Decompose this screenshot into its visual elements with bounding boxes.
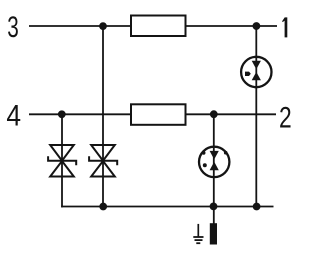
PE terminal bar [210, 223, 217, 244]
svg-text:2: 2 [279, 100, 292, 134]
wire: vertical through D2 (from top wire to bottom bus) [102, 26, 104, 207]
junction dot: bottom bus / D2 branch [99, 203, 107, 211]
wire: middle horizontal (terminal 4 to terminal 2) [29, 113, 276, 115]
suppressor diode D1 zener bar [48, 156, 76, 165]
F2 gas-filled indicator dot [203, 163, 207, 167]
suppressor diode D1 bottom triangle [50, 161, 74, 177]
F2 fail-safe mark left (10 o'clock on circle) [202, 151, 206, 155]
wire: left vertical through D1 [61, 114, 63, 207]
junction dot: top wire / D2 branch [99, 22, 107, 30]
terminal label 3 [7, 11, 19, 44]
F1 gas-filled indicator dot [245, 72, 251, 76]
junction dot: bottom bus / F2 branch [210, 203, 218, 211]
resistor R1 [131, 16, 186, 37]
wire: bottom horizontal bus [61, 206, 273, 208]
gas discharge tube F2 (middle) circle [199, 147, 229, 177]
F2 spark-gap arrow (upper, pointing down) [210, 151, 219, 160]
junction dot: top wire / F1 branch [253, 22, 261, 30]
ground symbol stem [197, 224, 199, 237]
F2 fail-safe mark right (2 o'clock on circle) [224, 151, 228, 155]
junction dot: middle wire / F2 branch [210, 110, 218, 118]
F1 spark-gap arrow (lower, pointing up) [252, 72, 261, 80]
wire: top horizontal (terminal 3 to terminal 1) [29, 25, 277, 27]
F1 spark-gap arrow (upper, pointing down) [252, 61, 261, 70]
suppressor diode D2 bottom triangle [91, 161, 115, 177]
resistor R2 [131, 104, 186, 125]
svg-text:4: 4 [6, 98, 21, 132]
wire: vertical through F2 down to PE stub [213, 114, 215, 223]
junction dot: middle wire / D1 branch [58, 110, 66, 118]
terminal label 2 [279, 100, 292, 134]
svg-text:3: 3 [7, 11, 19, 44]
ground symbol bar 1 [193, 236, 203, 238]
F2 spark-gap arrow (lower, pointing up) [210, 162, 219, 170]
suppressor diode D2 (bidirectional) top triangle [91, 145, 115, 161]
wire: right vertical through F1 [255, 26, 257, 207]
ground symbol bar 3 [196, 242, 200, 244]
terminal label 4 [6, 98, 21, 132]
suppressor diode D2 zener bar [89, 156, 117, 165]
gas discharge tube F1 (top right) circle [241, 57, 271, 87]
junction dot: bottom bus / F1 branch [253, 203, 261, 211]
suppressor diode D1 (bidirectional) top triangle [50, 145, 74, 161]
ground symbol bar 2 [195, 239, 203, 241]
terminal label 1 [282, 17, 287, 37]
